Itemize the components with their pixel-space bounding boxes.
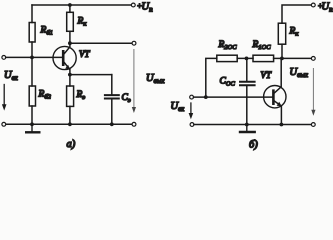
node Rb2-ground junction xyxy=(30,122,34,126)
svg-text:Uп: Uп xyxy=(142,2,154,14)
terminal output-top a xyxy=(132,41,136,45)
resistor Re xyxy=(67,86,74,106)
wire Cos top lead xyxy=(246,58,248,81)
terminal input a xyxy=(2,56,6,60)
transistor VT b xyxy=(264,86,286,108)
arrow Uvyx a xyxy=(133,50,135,108)
svg-text:Rэ: Rэ xyxy=(76,90,86,101)
terminal output-bottom a xyxy=(132,122,136,126)
svg-text:CОС: CОС xyxy=(220,77,236,88)
svg-text:Rб1: Rб1 xyxy=(40,26,53,37)
svg-text:Rб2: Rб2 xyxy=(38,90,52,101)
wire Ce top lead xyxy=(111,75,113,95)
wire feedback rail left segment xyxy=(206,58,217,97)
resistor R1os xyxy=(253,55,274,61)
svg-text:Uвх: Uвх xyxy=(4,70,19,82)
arrow Uvx b xyxy=(190,103,192,115)
node emitter-rail junction b xyxy=(280,123,284,127)
resistor Rk a xyxy=(67,12,74,31)
svg-text:VT: VT xyxy=(261,70,272,80)
svg-text:Uвх: Uвх xyxy=(171,101,186,113)
wire Cos bottom lead xyxy=(246,86,248,124)
svg-text:Rк: Rк xyxy=(289,27,300,38)
terminal +Up b xyxy=(311,3,315,7)
ground a xyxy=(31,124,33,131)
capacitor Cos xyxy=(240,81,255,83)
svg-text:а): а) xyxy=(67,139,76,150)
wire between R2os and R1os xyxy=(237,57,253,59)
wire Re bottom lead xyxy=(69,106,71,124)
svg-text:Uп: Uп xyxy=(322,2,333,14)
transistor VT a xyxy=(53,46,76,69)
wire bottom rail a xyxy=(6,123,132,125)
node top rail / Rk junction xyxy=(68,3,72,7)
wire Rb2 top lead xyxy=(31,57,33,86)
svg-text:VT: VT xyxy=(79,49,90,59)
arrow Uvyx b xyxy=(312,69,314,111)
wire R1os to collector node xyxy=(274,57,282,59)
node Re bottom junction xyxy=(68,122,72,126)
wire bottom rail b xyxy=(194,124,312,126)
wire Re top lead xyxy=(69,75,71,86)
wire Ce bottom lead xyxy=(111,100,113,125)
wire base line b xyxy=(194,96,273,98)
node input junction b xyxy=(204,95,208,99)
capacitor Ce xyxy=(105,94,119,96)
resistor R2os xyxy=(217,55,237,61)
wire collector output line a xyxy=(70,42,132,44)
terminal output-bottom b xyxy=(311,123,315,127)
svg-text:Uвых: Uвых xyxy=(290,67,309,79)
wire input line to base xyxy=(6,56,63,58)
wire left vertical from rail to Rb1 xyxy=(31,5,33,23)
node Ce bottom junction xyxy=(110,122,114,126)
svg-text:Uвых: Uвых xyxy=(146,73,165,85)
wire Rk bottom lead b xyxy=(281,44,283,58)
svg-text:Cэ: Cэ xyxy=(122,93,131,104)
svg-text:R2ОС: R2ОС xyxy=(218,40,238,51)
wire Rk top lead a xyxy=(69,5,71,12)
wire Rb2 bottom lead xyxy=(31,106,33,124)
terminal output-top b xyxy=(311,57,315,61)
terminal input-bottom b xyxy=(190,123,194,127)
svg-text:R1ОС: R1ОС xyxy=(252,40,272,51)
resistor Rb1 xyxy=(29,23,35,43)
wire emitter line to Ce xyxy=(70,74,112,76)
arrow Uvx a xyxy=(3,85,5,106)
node base/input junction xyxy=(30,56,34,60)
svg-text:б): б) xyxy=(249,140,258,151)
resistor Rk b xyxy=(278,23,285,44)
node emitter junction a xyxy=(68,73,72,77)
ground b xyxy=(246,125,248,132)
terminal bottom-left a xyxy=(2,122,6,126)
wire Rb1 bottom lead xyxy=(31,42,33,57)
wire top supply rail b xyxy=(282,5,311,23)
terminal input b xyxy=(190,95,194,99)
node collector junction b xyxy=(280,57,284,61)
terminal +Up a xyxy=(131,3,135,7)
node Cos-ground junction xyxy=(245,123,249,127)
wire top supply rail a xyxy=(32,4,131,6)
node collector junction a xyxy=(68,41,72,45)
wire Rk bottom lead a xyxy=(69,31,71,43)
wire output line b xyxy=(282,57,312,59)
svg-text:Rк: Rк xyxy=(77,17,88,28)
resistor Rb2 xyxy=(29,86,35,106)
node R2os-R1os junction xyxy=(245,57,249,61)
